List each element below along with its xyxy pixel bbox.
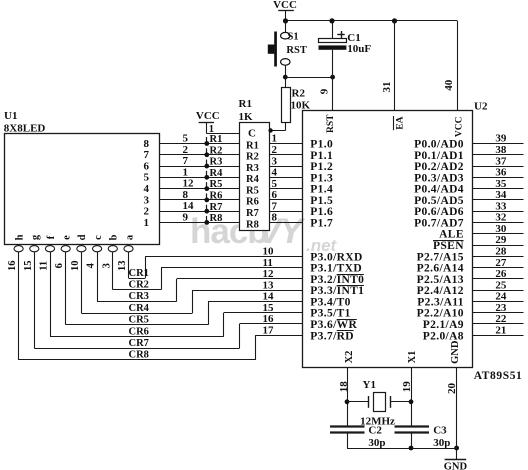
svg-text:R1: R1 bbox=[239, 98, 252, 110]
svg-text:21: 21 bbox=[495, 324, 506, 336]
wire GND pin 20 bbox=[456, 367, 458, 459]
svg-text:3: 3 bbox=[101, 263, 112, 268]
svg-text:P2.0/A8: P2.0/A8 bbox=[423, 330, 464, 342]
svg-text:P3.3/INT1: P3.3/INT1 bbox=[310, 285, 364, 297]
svg-text:U1: U1 bbox=[4, 110, 17, 122]
U1 bottom pin bubble bbox=[77, 246, 86, 252]
svg-text:4: 4 bbox=[86, 262, 97, 268]
svg-text:P1.2: P1.2 bbox=[310, 161, 333, 173]
svg-text:16: 16 bbox=[263, 313, 275, 325]
svg-text:R3: R3 bbox=[246, 163, 259, 174]
svg-text:P3.2/INT0: P3.2/INT0 bbox=[310, 274, 364, 286]
LED matrix U1 box bbox=[5, 134, 160, 245]
svg-text:VCC: VCC bbox=[273, 0, 297, 11]
wire U1 row 1 to resistor network bbox=[159, 222, 240, 224]
svg-text:P1.3: P1.3 bbox=[310, 172, 333, 184]
junction X2 crystal bbox=[345, 399, 350, 404]
svg-text:35: 35 bbox=[495, 178, 507, 190]
svg-text:c: c bbox=[93, 235, 104, 240]
svg-text:d: d bbox=[77, 234, 88, 240]
svg-text:27: 27 bbox=[495, 257, 507, 269]
svg-text:13: 13 bbox=[117, 261, 128, 272]
svg-text:PSEN: PSEN bbox=[433, 240, 464, 252]
svg-text:P2.3/A11: P2.3/A11 bbox=[417, 296, 464, 308]
svg-text:19: 19 bbox=[401, 381, 413, 393]
svg-text:2: 2 bbox=[144, 206, 150, 218]
wire X2 pin 18 bbox=[347, 367, 349, 426]
svg-text:P1.6: P1.6 bbox=[310, 206, 333, 218]
svg-text:P0.3/AD3: P0.3/AD3 bbox=[414, 172, 464, 184]
svg-text:CR4: CR4 bbox=[129, 303, 150, 314]
svg-text:3: 3 bbox=[272, 155, 278, 167]
svg-text:30p: 30p bbox=[368, 437, 385, 449]
junction X1 crystal bbox=[409, 399, 414, 404]
svg-text:36: 36 bbox=[495, 167, 507, 179]
wire network pin C to R2 bottom bbox=[269, 130, 285, 132]
svg-text:R4: R4 bbox=[246, 174, 260, 185]
svg-text:h: h bbox=[14, 234, 25, 240]
svg-text:P3.4/T0: P3.4/T0 bbox=[310, 296, 350, 308]
svg-text:12: 12 bbox=[263, 268, 275, 280]
wire U2 right pin 36 bbox=[472, 177, 524, 179]
wire U2 right pin 26 bbox=[472, 278, 524, 280]
svg-text:22: 22 bbox=[495, 313, 507, 325]
svg-text:14: 14 bbox=[183, 200, 195, 212]
svg-text:CR6: CR6 bbox=[129, 326, 149, 337]
U1 bottom pin bubble bbox=[124, 246, 133, 252]
svg-text:P1.7: P1.7 bbox=[310, 217, 333, 229]
U1 bottom pin bubble bbox=[45, 246, 54, 252]
svg-text:C: C bbox=[248, 128, 256, 140]
U1 bottom pin bubble bbox=[30, 246, 39, 252]
wire U2 right pin 39 bbox=[472, 143, 524, 145]
svg-text:P3.1/TXD: P3.1/TXD bbox=[310, 263, 362, 275]
svg-text:4: 4 bbox=[144, 183, 150, 195]
svg-text:18: 18 bbox=[338, 381, 350, 393]
wire U2 right pin 34 bbox=[472, 199, 524, 201]
svg-text:R1: R1 bbox=[210, 134, 223, 145]
junction bus GND bbox=[454, 446, 459, 451]
svg-text:U2: U2 bbox=[474, 101, 488, 113]
wire U2 right pin 25 bbox=[472, 290, 524, 292]
node R7 flag bbox=[206, 205, 208, 212]
svg-text:g: g bbox=[30, 234, 41, 240]
svg-text:P2.6/A14: P2.6/A14 bbox=[417, 263, 464, 275]
svg-text:8X8LED: 8X8LED bbox=[4, 123, 46, 135]
svg-text:R4: R4 bbox=[210, 168, 224, 179]
svg-text:CR7: CR7 bbox=[129, 338, 149, 349]
svg-text:b: b bbox=[109, 234, 120, 240]
svg-text:R1: R1 bbox=[246, 140, 259, 151]
wire U2 right pin 21 bbox=[472, 335, 524, 337]
svg-text:1: 1 bbox=[183, 166, 189, 178]
wire U2 right pin 33 bbox=[472, 211, 524, 213]
watermark hacdiy.net bbox=[190, 212, 338, 255]
U1 bottom pin bubble bbox=[108, 246, 117, 252]
resistor R2 bbox=[282, 88, 291, 123]
svg-text:5: 5 bbox=[272, 178, 278, 190]
junction network pin C bbox=[268, 128, 272, 132]
svg-text:9: 9 bbox=[319, 88, 331, 94]
wire U1 row 5 to resistor network bbox=[159, 177, 240, 179]
node R5 flag bbox=[206, 182, 208, 189]
svg-text:P0.1/AD1: P0.1/AD1 bbox=[414, 150, 464, 162]
wire net CR2 bbox=[112, 252, 114, 290]
wire network R4 to U2 P1.3 bbox=[269, 177, 302, 179]
svg-text:40: 40 bbox=[443, 79, 455, 91]
svg-text:25: 25 bbox=[495, 279, 507, 291]
svg-text:X1: X1 bbox=[407, 351, 418, 364]
svg-text:R3: R3 bbox=[210, 157, 223, 168]
svg-text:20: 20 bbox=[446, 383, 458, 395]
wire pin 9 into U2 RST bbox=[332, 77, 334, 110]
svg-text:P0.5/AD5: P0.5/AD5 bbox=[414, 195, 464, 207]
svg-text:RST: RST bbox=[286, 45, 306, 56]
svg-text:2: 2 bbox=[272, 144, 278, 156]
svg-text:CR5: CR5 bbox=[129, 315, 149, 326]
node R8 flag bbox=[206, 216, 208, 223]
svg-text:R8: R8 bbox=[210, 213, 223, 224]
svg-text:P2.1/A9: P2.1/A9 bbox=[423, 319, 464, 331]
crystal Y1 bbox=[347, 401, 368, 403]
svg-text:23: 23 bbox=[495, 302, 507, 314]
svg-text:4: 4 bbox=[272, 167, 278, 179]
svg-text:1: 1 bbox=[209, 124, 214, 135]
svg-text:P1.4: P1.4 bbox=[310, 184, 333, 196]
svg-text:11: 11 bbox=[38, 261, 49, 271]
svg-text:P0.6/AD6: P0.6/AD6 bbox=[414, 206, 464, 218]
svg-text:10: 10 bbox=[70, 261, 81, 272]
svg-text:6: 6 bbox=[54, 263, 65, 268]
wire RST node to U2 pin 9 bbox=[285, 77, 332, 79]
U1 bottom pin bubble bbox=[14, 246, 23, 252]
svg-text:7: 7 bbox=[144, 149, 150, 161]
wire net CR8 bbox=[18, 252, 20, 360]
svg-text:Y1: Y1 bbox=[363, 379, 376, 391]
svg-text:29: 29 bbox=[495, 234, 507, 246]
wire X1 pin 19 bbox=[411, 367, 413, 426]
node R1 flag bbox=[206, 137, 208, 144]
VCC rail wire bbox=[286, 20, 458, 22]
svg-text:CR2: CR2 bbox=[129, 280, 149, 291]
svg-text:CR1: CR1 bbox=[129, 268, 149, 279]
svg-text:P3.7/RD: P3.7/RD bbox=[310, 330, 354, 342]
wire U2 right pin 24 bbox=[472, 301, 524, 303]
svg-text:32: 32 bbox=[495, 212, 507, 224]
C1 polarity plus bbox=[337, 34, 344, 36]
wire U1 row 7 to resistor network bbox=[159, 154, 240, 156]
svg-text:a: a bbox=[124, 234, 135, 240]
svg-text:39: 39 bbox=[495, 133, 507, 145]
svg-text:7: 7 bbox=[183, 155, 189, 167]
svg-text:33: 33 bbox=[495, 200, 507, 212]
svg-text:C2: C2 bbox=[368, 425, 382, 437]
wire U1 row 3 to resistor network bbox=[159, 199, 240, 201]
svg-text:30p: 30p bbox=[433, 437, 450, 449]
svg-text:10K: 10K bbox=[291, 100, 311, 112]
wire U1 row 2 to resistor network bbox=[159, 211, 240, 213]
svg-text:f: f bbox=[46, 235, 57, 239]
svg-text:P1.0: P1.0 bbox=[310, 139, 333, 151]
junction EA branch bbox=[392, 18, 397, 23]
wire network R7 to U2 P1.6 bbox=[269, 211, 302, 213]
svg-text:CR8: CR8 bbox=[129, 350, 149, 361]
wire U1 row 6 to resistor network bbox=[159, 166, 240, 168]
ground bus wire bbox=[347, 448, 457, 450]
wire U2 right pin 38 bbox=[472, 154, 524, 156]
svg-text:P2.7/A15: P2.7/A15 bbox=[417, 251, 464, 263]
svg-text:8: 8 bbox=[272, 212, 278, 224]
U1 bottom pin bubble bbox=[93, 246, 102, 252]
wire net CR7 bbox=[34, 252, 36, 348]
node R3 flag bbox=[206, 160, 208, 167]
svg-text:R7: R7 bbox=[210, 202, 223, 213]
junction C3 bus bbox=[409, 446, 414, 451]
svg-text:P2.2/A10: P2.2/A10 bbox=[417, 308, 464, 320]
svg-text:GND: GND bbox=[450, 340, 461, 364]
wire net CR1 bbox=[128, 252, 130, 278]
svg-text:P1.5: P1.5 bbox=[310, 195, 333, 207]
svg-text:26: 26 bbox=[495, 268, 507, 280]
svg-text:P0.0/AD0: P0.0/AD0 bbox=[414, 139, 464, 151]
wire U2 right pin 35 bbox=[472, 188, 524, 190]
node R6 flag bbox=[206, 193, 208, 200]
svg-text:P0.7/AD7: P0.7/AD7 bbox=[414, 217, 464, 229]
svg-text:6: 6 bbox=[272, 189, 278, 201]
svg-text:EA: EA bbox=[396, 116, 406, 129]
wire U1 row 8 to resistor network bbox=[159, 143, 240, 145]
wire button to R2 bbox=[285, 65, 287, 87]
svg-text:17: 17 bbox=[263, 324, 275, 336]
wire net CR6 bbox=[50, 252, 52, 337]
wire U2 right pin 37 bbox=[472, 166, 524, 168]
resistor network R1 box bbox=[240, 123, 270, 231]
wire network R6 to U2 P1.5 bbox=[269, 199, 302, 201]
svg-text:AT89S51: AT89S51 bbox=[474, 370, 523, 382]
junction C1 top bbox=[329, 18, 334, 23]
svg-text:13: 13 bbox=[263, 279, 275, 291]
svg-text:12: 12 bbox=[183, 178, 195, 190]
svg-text:R8: R8 bbox=[246, 219, 259, 230]
svg-text:5: 5 bbox=[144, 172, 150, 184]
svg-text:1K: 1K bbox=[239, 111, 254, 123]
svg-text:P3.6/WR: P3.6/WR bbox=[310, 319, 357, 331]
svg-text:1: 1 bbox=[272, 133, 278, 145]
svg-text:VCC: VCC bbox=[454, 116, 464, 137]
svg-text:C3: C3 bbox=[433, 425, 447, 437]
svg-text:P1.1: P1.1 bbox=[310, 150, 333, 162]
svg-text:R5: R5 bbox=[210, 179, 223, 190]
svg-text:2: 2 bbox=[183, 144, 189, 156]
svg-text:11: 11 bbox=[263, 257, 273, 269]
svg-text:30: 30 bbox=[495, 223, 507, 235]
push button S1 bbox=[281, 32, 290, 39]
wire U2 right pin 22 bbox=[472, 323, 524, 325]
svg-text:38: 38 bbox=[495, 144, 507, 156]
wire U2 right pin 32 bbox=[472, 222, 524, 224]
svg-text:R2: R2 bbox=[246, 152, 259, 163]
svg-text:1: 1 bbox=[144, 217, 150, 229]
ground symbol bbox=[445, 459, 467, 461]
svg-text:e: e bbox=[61, 235, 72, 240]
wire VCC to network pin C bbox=[207, 133, 240, 135]
wire U2 right pin 30 bbox=[472, 233, 524, 235]
svg-text:5: 5 bbox=[183, 133, 189, 145]
svg-text:P0.4/AD4: P0.4/AD4 bbox=[414, 184, 464, 196]
wire network R5 to U2 P1.4 bbox=[269, 188, 302, 190]
capacitor C3 bbox=[395, 425, 430, 427]
wire net CR3 bbox=[97, 252, 99, 302]
wire net CR4 bbox=[81, 252, 83, 313]
svg-text:R2: R2 bbox=[292, 88, 306, 100]
svg-text:31: 31 bbox=[381, 82, 393, 93]
junction C1 bottom bbox=[330, 75, 335, 80]
node R2 flag bbox=[206, 148, 208, 155]
svg-text:15: 15 bbox=[263, 302, 275, 314]
svg-text:P2.4/A12: P2.4/A12 bbox=[417, 285, 464, 297]
wire U1 row 4 to resistor network bbox=[159, 188, 240, 190]
svg-text:P2.5/A13: P2.5/A13 bbox=[417, 274, 464, 286]
svg-text:ALE: ALE bbox=[439, 229, 464, 241]
svg-text:R5: R5 bbox=[246, 185, 259, 196]
svg-text:28: 28 bbox=[495, 246, 507, 258]
svg-text:8: 8 bbox=[183, 189, 189, 201]
wire net CR5 bbox=[65, 252, 67, 325]
wire U2 right pin 27 bbox=[472, 267, 524, 269]
svg-text:34: 34 bbox=[495, 189, 507, 201]
svg-text:GND: GND bbox=[444, 461, 468, 470]
svg-text:RST: RST bbox=[326, 114, 336, 133]
svg-text:7: 7 bbox=[272, 200, 278, 212]
U1 bottom pin bubble bbox=[61, 246, 70, 252]
svg-text:R2: R2 bbox=[210, 145, 223, 156]
svg-text:R6: R6 bbox=[210, 191, 223, 202]
capacitor C1 (polarized) bbox=[332, 21, 334, 38]
svg-text:8: 8 bbox=[144, 138, 150, 150]
wire rail to button S1 bbox=[285, 21, 287, 33]
svg-text:R7: R7 bbox=[246, 208, 259, 219]
svg-text:16: 16 bbox=[7, 261, 18, 272]
wire network R1 to U2 P1.0 bbox=[269, 143, 302, 145]
wire U2 right pin 29 bbox=[472, 245, 524, 247]
svg-text:3: 3 bbox=[144, 194, 150, 206]
svg-text:P0.2/AD2: P0.2/AD2 bbox=[414, 161, 464, 173]
capacitor C2 bbox=[330, 425, 365, 427]
junction RST node bbox=[283, 75, 288, 80]
wire network R2 to U2 P1.1 bbox=[269, 154, 302, 156]
svg-text:15: 15 bbox=[23, 261, 34, 272]
svg-text:P3.0/RXD: P3.0/RXD bbox=[310, 251, 362, 263]
wire pin 40 VCC bbox=[457, 21, 459, 111]
node R4 flag bbox=[206, 171, 208, 178]
wire U2 right pin 28 bbox=[472, 256, 524, 258]
wire U2 right pin 23 bbox=[472, 312, 524, 314]
svg-text:6: 6 bbox=[144, 160, 150, 172]
wire pin 31 EA bbox=[394, 21, 396, 111]
svg-text:24: 24 bbox=[495, 291, 507, 303]
svg-text:VCC: VCC bbox=[196, 110, 220, 122]
svg-text:37: 37 bbox=[495, 155, 507, 167]
svg-text:X2: X2 bbox=[344, 351, 355, 364]
svg-text:S1: S1 bbox=[288, 32, 299, 43]
svg-text:CR3: CR3 bbox=[129, 291, 149, 302]
junction VCC stem bbox=[283, 18, 288, 23]
svg-text:R6: R6 bbox=[246, 197, 259, 208]
MCU U2 box bbox=[303, 111, 473, 368]
svg-text:14: 14 bbox=[263, 291, 275, 303]
svg-text:9: 9 bbox=[183, 211, 189, 223]
wire network R3 to U2 P1.2 bbox=[269, 166, 302, 168]
svg-text:P3.5/T1: P3.5/T1 bbox=[310, 308, 350, 320]
wire network R8 to U2 P1.7 bbox=[269, 222, 302, 224]
svg-text:10uF: 10uF bbox=[347, 43, 371, 55]
svg-text:10: 10 bbox=[263, 246, 275, 258]
